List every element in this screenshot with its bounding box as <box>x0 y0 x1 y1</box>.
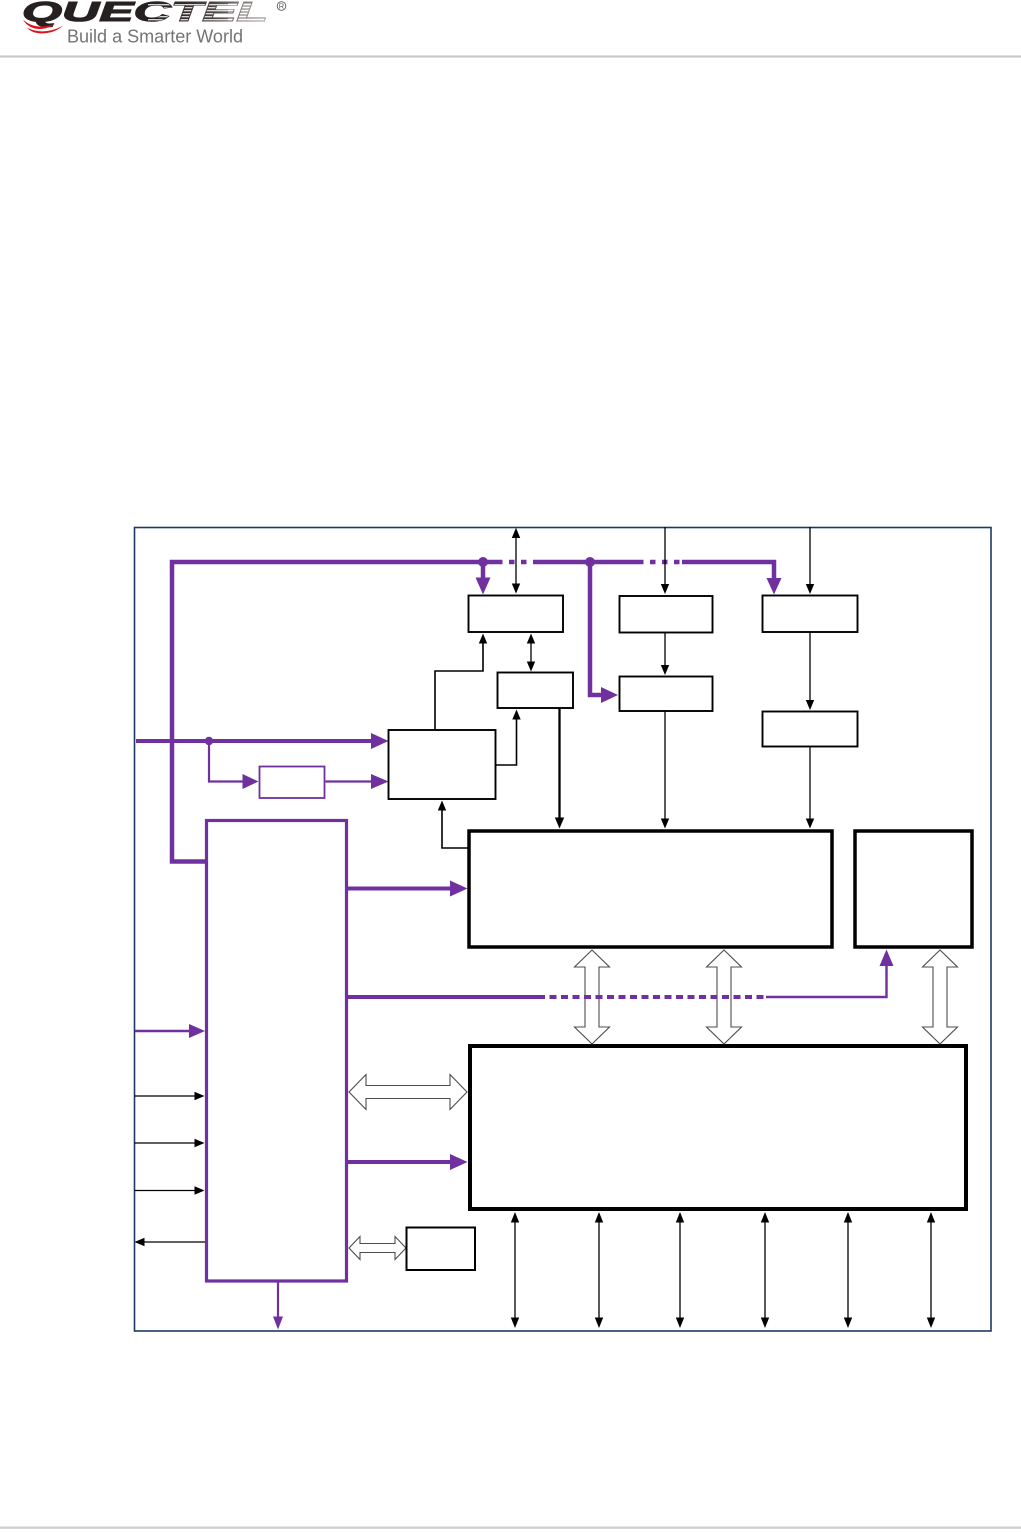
power management box U3 <box>470 1046 966 1209</box>
baseband box U1 <box>469 831 832 947</box>
block arrow memory-PM <box>923 950 958 1044</box>
purple bus solid part <box>348 995 538 999</box>
wire frame to tall box in 3 <box>135 1190 198 1192</box>
memory box U2 <box>855 831 972 947</box>
logo wordmark QUECTEL <box>22 0 268 27</box>
wire X1 to B7 <box>326 780 373 782</box>
PM bottom double arrow 1 <box>514 1216 516 1324</box>
wire dashed segment 2 <box>638 560 682 565</box>
wire dashed segment 1 <box>497 560 534 565</box>
PM bottom double arrow 6 <box>930 1216 932 1324</box>
wire frame to tall box in 1 <box>135 1095 198 1097</box>
wire B7-top elbow to B1 bottom <box>435 640 483 730</box>
junction dot C <box>205 737 213 745</box>
wire frame to tall box in 2 <box>135 1142 198 1144</box>
purple bus dashed part <box>538 995 766 999</box>
wire B7 right to B6 bottom <box>496 716 517 765</box>
BT box <box>407 1228 476 1271</box>
wire to RF top right <box>682 562 774 580</box>
wire frame-top to B3 <box>809 527 811 589</box>
small purple box X1 <box>260 767 325 799</box>
box B2 <box>620 596 713 633</box>
purple bus thin tail to memory <box>766 957 887 997</box>
purple arrow below tall box <box>277 1282 279 1318</box>
arrowhead into box B3 <box>767 578 782 595</box>
wire solid segment 2 <box>534 560 638 565</box>
box B7 <box>389 730 496 799</box>
box B1 <box>469 596 564 633</box>
logo registered mark <box>277 2 286 11</box>
block arrow tall-box to PM bus <box>349 1075 467 1110</box>
purple main trunk wire <box>172 562 497 862</box>
diagram frame <box>135 528 992 1332</box>
tall purple box U4 <box>207 821 347 1282</box>
PM bottom double arrow 5 <box>847 1216 849 1324</box>
wire B2 to B4 <box>664 633 666 669</box>
logo red swoosh <box>23 20 63 34</box>
block arrow tall-box to BT box <box>349 1237 406 1260</box>
wire tall box out to frame <box>142 1241 205 1243</box>
wire B1-B6 double arrow <box>530 637 532 668</box>
junction dot A <box>478 557 488 567</box>
box B5 <box>763 712 858 747</box>
wire frame-top to B2 <box>664 527 666 589</box>
wire junction B down to box B4 <box>590 562 601 695</box>
purple arrow into tall box from frame <box>135 1030 191 1033</box>
logo stripe overlay <box>148 4 275 21</box>
wire B6 to baseband <box>558 708 560 820</box>
wire baseband left to B7 bottom <box>442 807 468 848</box>
block arrow baseband-PM left <box>575 950 610 1044</box>
purple wire tall box to baseband <box>348 887 451 891</box>
PM bottom double arrow 4 <box>764 1216 766 1324</box>
wire B5 to baseband <box>809 747 811 820</box>
wire frame-top to B1 double arrow <box>515 532 517 590</box>
box B6 <box>498 673 574 709</box>
wire B4 to baseband <box>664 711 666 820</box>
block arrow baseband-PM right <box>707 950 742 1044</box>
arrow from junction A into box B1 <box>481 562 486 578</box>
PM bottom double arrow 3 <box>679 1216 681 1324</box>
junction dot B <box>585 557 595 567</box>
header rule <box>0 55 1021 57</box>
purple wire into mixer box B7 <box>136 739 372 743</box>
svg-text:R: R <box>279 2 285 11</box>
svg-text:Build a Smarter World: Build a Smarter World <box>67 26 243 47</box>
box B3 <box>763 596 858 633</box>
branch wire to small purple box <box>209 741 243 782</box>
box B4 <box>620 677 713 712</box>
footer rule <box>0 1527 1021 1529</box>
wire B3 to B5 <box>809 632 811 703</box>
purple wire tall box to PM <box>348 1160 451 1164</box>
PM bottom double arrow 2 <box>598 1216 600 1324</box>
